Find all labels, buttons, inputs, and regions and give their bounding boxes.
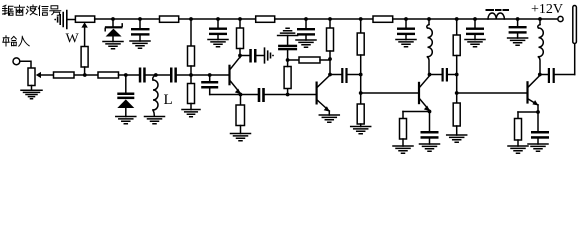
transistor Q2 xyxy=(316,73,332,115)
potentiometer RP (input volume) xyxy=(28,68,35,86)
resistor R10 (Q4 bias upper) xyxy=(453,17,460,103)
resistor R4 (Q1 collector load) xyxy=(237,17,244,55)
capacitor C17 (antenna coupling) xyxy=(540,74,548,76)
svg-text:+12V: +12V xyxy=(531,2,563,17)
sawtooth source connector (sideways ground) xyxy=(54,11,67,29)
capacitor C3 (rail bypass) xyxy=(297,17,315,40)
resistor R9 (rail) xyxy=(373,16,393,22)
ground (R14) xyxy=(182,110,200,117)
ground (input pot) xyxy=(21,90,42,98)
capacitor C12 (decoupling, flipped to ground above) xyxy=(287,50,289,60)
capacitor C9 (Q1 base-emitter) xyxy=(201,73,218,94)
resistor R13 (series) xyxy=(98,72,119,78)
capacitor C1 (rail bypass) xyxy=(131,17,150,41)
Q4 base line xyxy=(457,92,527,94)
node (Q3 bias column upper) xyxy=(359,73,363,77)
wire xyxy=(119,74,139,76)
Q3 base line xyxy=(361,92,418,94)
capacitor C5 (rail bypass) xyxy=(466,17,484,39)
resistor R5 (rail) xyxy=(256,16,275,22)
inductor L (tank) xyxy=(153,73,158,115)
resistor R8 (Q3 bias lower) xyxy=(357,104,364,124)
inductor L2 (Q3 collector choke) xyxy=(427,17,433,74)
ground (C1) xyxy=(130,41,150,48)
svg-text:L: L xyxy=(164,92,173,108)
ground (C16) xyxy=(528,144,548,151)
node (Q1 emitter junction) xyxy=(239,93,243,97)
svg-text:W: W xyxy=(66,32,80,47)
resistor R17 (Q2 collector feed) xyxy=(288,59,299,61)
wire (Q1 emitter line) xyxy=(210,94,258,96)
resistor R19 (Q4 emitter) xyxy=(517,112,519,119)
ground (C4) xyxy=(396,40,416,47)
capacitor C8 (series) xyxy=(170,68,173,83)
resistor R2 (rail) xyxy=(160,16,179,22)
ground (R19) xyxy=(508,146,528,153)
resistor R11 (Q4 bias lower) xyxy=(453,103,460,126)
ground (R8) xyxy=(351,127,371,134)
resistor R7 (Q3 bias upper) xyxy=(357,17,364,104)
ground (zener) xyxy=(103,42,123,49)
node (Q4 base junction) xyxy=(455,91,459,95)
antenna xyxy=(574,44,576,75)
ground (R15) xyxy=(231,134,251,141)
inductor L3 (rail filter, with core) xyxy=(487,10,509,19)
signal line y=75 xyxy=(74,74,98,76)
capacitor C2 (rail bypass) xyxy=(209,17,227,39)
top rail wire xyxy=(95,18,558,20)
Q4 emitter node xyxy=(536,110,540,114)
capacitor C11 (coupling Q1-Q2) xyxy=(258,88,261,102)
sideways ground (C10) xyxy=(265,48,271,63)
wire xyxy=(177,74,229,76)
capacitor C14 (Q3 emitter bypass) xyxy=(429,112,431,132)
zener diode D1 xyxy=(105,17,123,41)
+12V terminal xyxy=(558,16,563,21)
wire xyxy=(146,74,170,76)
resistor R16 (feedback bias) xyxy=(287,89,289,95)
node (bias divider junction) xyxy=(189,73,193,77)
ground (R11) xyxy=(447,135,467,142)
capacitor C16 (Q4 emitter bypass) xyxy=(537,112,539,131)
resistor R3 (bias upper, x=191) xyxy=(188,17,195,75)
ground (L) xyxy=(145,117,165,124)
transistor Q4 xyxy=(526,73,541,112)
node (Q3 base junction) xyxy=(359,91,363,95)
capacitor C15 (coupling Q3-Q4) xyxy=(430,74,442,76)
node (Q2 base bias junction) xyxy=(286,93,290,97)
node (wiper junction) xyxy=(83,73,87,77)
input terminal xyxy=(13,58,20,65)
ground (C2) xyxy=(208,40,228,47)
flipped ground (C12) xyxy=(278,28,298,35)
capacitor C10 (Q1 collector bypass, sideways) xyxy=(240,55,249,57)
label 锯齿波信号 (sawtooth signal) xyxy=(3,5,61,16)
resistor R15 (Q1 emitter) xyxy=(240,95,242,106)
transistor Q3 xyxy=(418,73,432,112)
resistor R6 (Q2 collector load) xyxy=(327,17,334,74)
capacitor C13 (coupling Q2-Q3) xyxy=(330,74,341,76)
ground (C3) xyxy=(296,40,316,47)
ground (R18) xyxy=(393,146,413,153)
wire (Q2 base line) xyxy=(265,94,315,96)
resistor R18 (Q3 emitter) xyxy=(402,112,404,119)
varactor diode D2 xyxy=(117,73,134,116)
resistor R12 (series) xyxy=(54,72,75,78)
label 输入 (input) xyxy=(3,36,29,46)
resistor R14 (bias lower, x=191) xyxy=(190,75,192,84)
resistor R1 (under W wiper) xyxy=(81,47,88,68)
transistor Q1 xyxy=(228,54,242,95)
capacitor C4 (rail bypass) xyxy=(397,17,415,39)
inductor L4 (Q4 collector choke) xyxy=(538,17,544,74)
ground (C6) xyxy=(508,38,528,45)
ground (C14) xyxy=(420,144,440,151)
ground (varactor) xyxy=(116,117,136,124)
pot W wiper arrow xyxy=(84,27,86,47)
capacitor C7 (series) xyxy=(139,68,142,83)
wire source to pot W xyxy=(67,19,75,21)
Q3 emitter node xyxy=(428,110,432,114)
node (Q4 bias column upper) xyxy=(455,73,459,77)
capacitor C6 (rail bypass) xyxy=(509,17,527,38)
ground (Q2 emitter) xyxy=(319,115,339,122)
ground (C5) xyxy=(465,40,485,47)
potentiometer W (box on rail) xyxy=(75,16,94,22)
